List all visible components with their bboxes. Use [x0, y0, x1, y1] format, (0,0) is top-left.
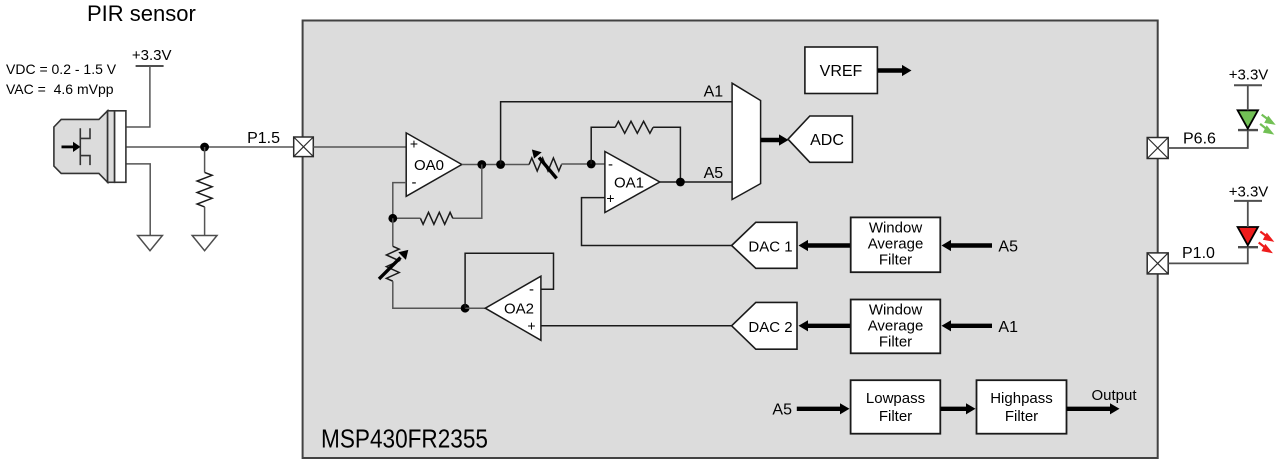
ground (load resistor)	[192, 236, 217, 251]
ground (PIR)	[138, 236, 163, 251]
svg-text:VAC = 4.6 mVpp: VAC = 4.6 mVpp	[6, 81, 114, 97]
pin P1.5 crossed box	[294, 137, 314, 157]
svg-text:Output: Output	[1092, 387, 1138, 404]
svg-text:A5: A5	[998, 239, 1018, 256]
wire OA0 output	[462, 164, 529, 166]
block ADC	[788, 116, 852, 162]
op-amp OA2 (buffer, points left)	[485, 276, 541, 340]
wire P1.0 to red LED	[1168, 247, 1248, 263]
svg-text:Window: Window	[869, 302, 923, 319]
wire OA0 feedback down leg	[453, 165, 482, 219]
wire OA1 feedback up leg	[591, 127, 615, 164]
wire DAC1 to OA1 + input	[582, 198, 732, 246]
pin P6.6 crossed box	[1147, 138, 1168, 159]
svg-text:Average: Average	[868, 318, 924, 335]
block Window Average Filter 1	[851, 217, 941, 272]
supply +3.3V rail bar (left)	[136, 65, 164, 67]
variable resistor (attenuator, horizontal)	[529, 158, 561, 171]
wire OA0 inverting input stub	[393, 183, 406, 219]
arrow WAF2 to DAC2	[807, 324, 851, 328]
svg-text:+: +	[606, 190, 614, 206]
LED green cathode bar	[1238, 129, 1258, 131]
wire PIR bottom pin to ground	[126, 164, 150, 236]
svg-text:A1: A1	[998, 319, 1018, 336]
variable resistor (gain, vertical)	[386, 246, 399, 281]
wire OA2 feedback loop	[465, 253, 553, 308]
green LED emission arrows	[1260, 115, 1274, 134]
svg-text:VREF: VREF	[820, 63, 863, 80]
wire node to resistor	[204, 147, 206, 172]
svg-text:+3.3V: +3.3V	[1229, 67, 1269, 84]
LED D1 green	[1238, 110, 1258, 128]
svg-text:P1.5: P1.5	[247, 130, 280, 147]
block Lowpass Filter	[851, 380, 941, 434]
svg-text:-: -	[529, 281, 534, 298]
supply +3.3V rail bar (green LED)	[1234, 84, 1262, 86]
DAC 2	[732, 302, 797, 349]
wire OA1 output A5 to mux	[660, 181, 732, 183]
resistor OA0 feedback	[420, 212, 452, 224]
svg-text:A1: A1	[704, 84, 724, 101]
svg-text:Filter: Filter	[879, 252, 912, 269]
node PIR output junction	[200, 143, 209, 152]
mux	[732, 83, 761, 199]
svg-text:OA2: OA2	[504, 301, 534, 318]
PIR flange inner bar	[108, 111, 115, 183]
node A1 takeoff	[496, 160, 505, 169]
wire PIR output to P1.5	[126, 146, 294, 148]
svg-text:A5: A5	[704, 165, 724, 182]
svg-text:PIR sensor: PIR sensor	[87, 1, 196, 26]
svg-text:+: +	[527, 318, 535, 334]
wire +3.3V to PIR top pin	[126, 66, 150, 127]
wire node to variable resistor	[392, 218, 394, 246]
arrow A1 to WAF2	[950, 324, 992, 328]
DAC 1	[732, 222, 797, 268]
arrow Lowpass to Highpass	[940, 407, 967, 411]
arrow A5 to WAF1	[950, 243, 992, 247]
svg-text:Filter: Filter	[879, 334, 912, 351]
svg-text:-: -	[412, 174, 417, 191]
wire variable resistor to OA1 - input	[561, 163, 605, 165]
wire P1.5 to OA0 + input	[313, 146, 406, 148]
wire DAC2 to OA2 + input	[541, 325, 732, 327]
node OA1 output	[676, 178, 685, 187]
svg-text:-: -	[608, 156, 613, 173]
wire node to OA2 output vertex	[465, 307, 485, 309]
block Window Average Filter 2	[851, 300, 941, 354]
svg-text:Filter: Filter	[879, 408, 912, 425]
op-amp OA0	[406, 133, 462, 196]
resistor OA1 feedback	[615, 121, 653, 133]
block VREF	[805, 47, 878, 94]
node feedback junction	[388, 214, 397, 223]
svg-text:P1.0: P1.0	[1182, 245, 1215, 262]
wire P6.6 to green LED	[1168, 130, 1248, 148]
svg-text:OA1: OA1	[614, 175, 644, 192]
arrow Highpass to Output	[1067, 407, 1112, 411]
svg-text:DAC 2: DAC 2	[748, 319, 792, 336]
block Highpass Filter	[977, 380, 1067, 434]
svg-text:VDC = 0.2 - 1.5 V: VDC = 0.2 - 1.5 V	[6, 61, 117, 77]
supply +3.3V rail bar (red LED)	[1234, 200, 1262, 202]
PIR sensor body	[54, 111, 108, 183]
arrow mux to ADC	[761, 138, 780, 142]
MSP430FR2355 block rectangle	[303, 21, 1158, 459]
svg-text:MSP430FR2355: MSP430FR2355	[321, 424, 488, 454]
arrow WAF1 to DAC1	[807, 243, 851, 247]
wire variable resistor to OA2 node	[393, 281, 465, 308]
arrow VREF output	[878, 68, 903, 72]
svg-text:ADC: ADC	[810, 132, 844, 149]
node OA0 output	[477, 160, 486, 169]
svg-text:Filter: Filter	[1005, 408, 1038, 425]
wire A1 riser and line to mux	[501, 102, 732, 165]
svg-text:Window: Window	[869, 220, 923, 237]
PIR flange outer bar	[115, 111, 126, 183]
svg-text:+3.3V: +3.3V	[1229, 184, 1269, 201]
resistor R load	[197, 172, 212, 207]
svg-text:+3.3V: +3.3V	[132, 47, 172, 64]
PIR element symbol channel and plates	[80, 128, 90, 165]
wire OA0 feedback to node	[393, 217, 421, 219]
wire resistor to ground	[204, 207, 206, 236]
wire OA1 feedback down leg	[653, 127, 680, 182]
svg-text:Average: Average	[868, 236, 924, 253]
wire green LED to +3.3V	[1247, 85, 1249, 110]
wire red LED to +3.3V	[1247, 201, 1249, 227]
node OA2 output junction	[461, 304, 470, 313]
svg-text:+: +	[410, 136, 418, 152]
svg-text:Highpass: Highpass	[990, 390, 1053, 407]
svg-text:OA0: OA0	[414, 157, 444, 174]
svg-text:P6.6: P6.6	[1183, 131, 1216, 148]
svg-text:DAC 1: DAC 1	[748, 239, 792, 256]
pin P1.0 crossed box	[1147, 253, 1168, 274]
red LED emission arrows	[1259, 232, 1273, 253]
svg-text:A5: A5	[772, 402, 792, 419]
LED red cathode bar	[1238, 246, 1258, 248]
node OA1 inverting input	[587, 160, 596, 169]
op-amp OA1	[605, 152, 660, 213]
arrow A5 to Lowpass	[797, 407, 841, 411]
svg-text:Lowpass: Lowpass	[866, 390, 925, 407]
LED D2 red	[1238, 227, 1258, 245]
PIR element symbol gate arrow	[62, 145, 74, 148]
